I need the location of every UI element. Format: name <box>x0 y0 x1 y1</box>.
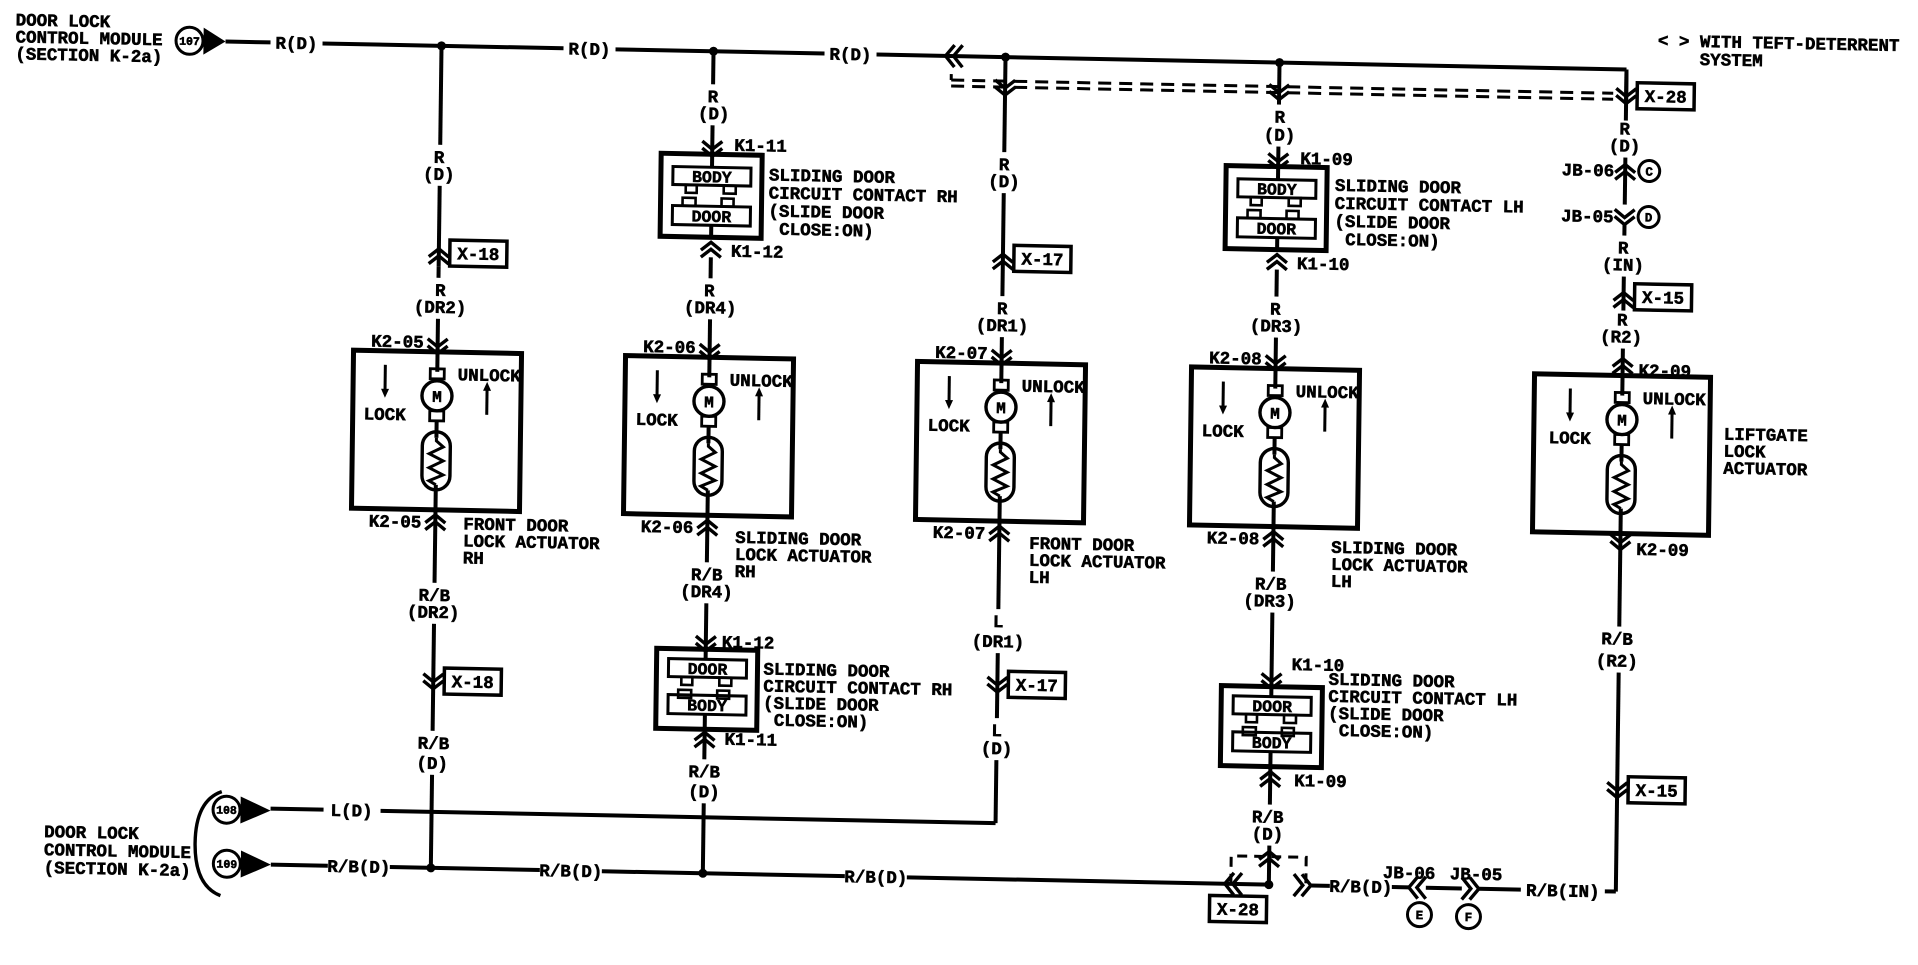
wire R/B(IN) corner to vertical 5 <box>1605 889 1616 893</box>
junction node at vertical 4 <box>1275 58 1284 67</box>
svg-text:(DR4): (DR4) <box>684 299 737 320</box>
svg-text:R/B: R/B <box>688 763 720 784</box>
svg-text:K2-05: K2-05 <box>369 513 422 534</box>
connector chevron into X-28 junction <box>1259 851 1279 866</box>
svg-text:108: 108 <box>216 805 237 818</box>
wire vertical 2 to lower contact RH <box>704 603 709 649</box>
wire L(D) run to vertical 3 <box>381 811 996 823</box>
connector chevron JB-06 bottom <box>1409 876 1426 898</box>
wire below actuator 2 <box>705 515 710 562</box>
svg-text:CLOSE:ON): CLOSE:ON) <box>774 712 869 734</box>
wire R(D) drop 4 <box>1277 63 1282 105</box>
svg-text:(IN): (IN) <box>1602 256 1644 277</box>
svg-text:JB-05: JB-05 <box>1561 207 1614 228</box>
connector X-15 upper label box <box>1634 284 1691 311</box>
wire between JB-06 and JB-05 <box>1426 886 1462 891</box>
wire vertical 5 into liftgate actuator <box>1621 349 1625 375</box>
connector X-17 lower chevron <box>987 677 1007 692</box>
svg-text:R(D): R(D) <box>275 35 317 56</box>
wire R(D) drop 2 <box>711 51 715 84</box>
wire R/B(D) segment 4 into X-28 <box>907 877 1269 884</box>
wire R(D) bus from terminal 107 <box>226 40 271 45</box>
sliding door lock actuator LH box K2-08 <box>1189 367 1359 528</box>
wire vertical 2 to contact RH <box>710 125 714 154</box>
connector X-28 dashed outline <box>1231 856 1306 886</box>
svg-text:M: M <box>996 400 1006 418</box>
connector chevron K1-11 lower <box>694 732 714 747</box>
svg-text:LH: LH <box>1029 569 1050 589</box>
wire vertical 1 below X-18 lower <box>431 689 436 731</box>
wire vertical 5 to X-15 lower <box>1617 673 1619 798</box>
svg-text:(D): (D) <box>698 105 730 126</box>
connector X-15 upper chevron <box>1613 292 1633 307</box>
wire L(D) from terminal 108 <box>271 809 324 810</box>
svg-text:X-18: X-18 <box>452 673 494 694</box>
connector chevron X-28 left <box>1225 873 1242 895</box>
junction node at vertical 1 <box>437 41 446 50</box>
svg-text:(D): (D) <box>688 783 720 804</box>
wire vertical 4 into actuator 4 <box>1274 338 1278 369</box>
sliding door circuit contact RH upper box <box>660 153 762 238</box>
svg-text:X-15: X-15 <box>1642 289 1684 310</box>
connector X-18 upper label box <box>450 240 507 267</box>
svg-text:UNLOCK: UNLOCK <box>730 372 794 393</box>
svg-text:BODY: BODY <box>1252 734 1292 754</box>
svg-text:K1-10: K1-10 <box>1297 255 1350 276</box>
module bracket parenthesis <box>194 791 221 896</box>
wire R(D) drop 1 upper <box>440 46 441 145</box>
svg-text:K2-07: K2-07 <box>935 344 988 365</box>
svg-text:M: M <box>1617 412 1627 430</box>
wire R(D) drop 3 <box>1004 57 1005 152</box>
wire R/B(D) segment 3 <box>602 871 845 876</box>
svg-text:(DR2): (DR2) <box>414 298 467 319</box>
wire vertical 3 into actuator 3 <box>1000 337 1004 363</box>
svg-text:UNLOCK: UNLOCK <box>1643 390 1707 411</box>
svg-text:L: L <box>993 613 1004 633</box>
wire R/B(D) after X-28 <box>1311 883 1330 887</box>
svg-text:M: M <box>432 389 442 407</box>
wire R(D) bus segment 3 <box>616 49 825 53</box>
wire vertical 1 below X-18 <box>437 267 441 278</box>
svg-text:X-17: X-17 <box>1021 250 1063 271</box>
svg-text:K2-09: K2-09 <box>1636 541 1689 562</box>
svg-text:BODY: BODY <box>687 696 727 716</box>
wire vertical 2 below contact <box>709 257 713 278</box>
wire vertical 5 below JB-05 <box>1622 225 1626 236</box>
wire vertical 1 to R/B(D) bus crossing L(D) <box>431 775 432 868</box>
connector chevron K1-10 below contact <box>1267 254 1287 269</box>
svg-text:LOCK: LOCK <box>928 417 971 438</box>
wire below liftgate actuator <box>1619 534 1620 627</box>
connector X-28 label box top right <box>1637 83 1694 110</box>
svg-text:K2-06: K2-06 <box>641 518 694 539</box>
connector chevron X-28 right <box>1294 874 1311 896</box>
svg-text:UNLOCK: UNLOCK <box>458 366 522 387</box>
connector X-15 lower chevron <box>1607 782 1627 797</box>
svg-text:X-15: X-15 <box>1635 782 1677 803</box>
svg-text:CLOSE:ON): CLOSE:ON) <box>779 221 874 243</box>
connector chevron K1-09 <box>1268 153 1288 168</box>
connector X-17 lower label box <box>1008 671 1065 698</box>
connector chevron JB-06 upper <box>1615 164 1635 179</box>
svg-text:(D): (D) <box>1264 126 1296 147</box>
svg-text:K2-05: K2-05 <box>371 333 424 354</box>
wire vertical 4 into X-28 junction <box>1267 846 1272 885</box>
svg-text:(DR1): (DR1) <box>972 633 1025 654</box>
terminal 107 of door lock control module <box>176 27 203 55</box>
connector X-17 upper chevron <box>993 254 1013 269</box>
connector chevron JB-05 bottom <box>1462 877 1479 899</box>
svg-text:M: M <box>704 394 714 412</box>
connector X-18 upper chevron <box>429 249 449 264</box>
svg-text:(D): (D) <box>988 173 1020 194</box>
svg-text:E: E <box>1416 909 1424 923</box>
wire R(D) bus segment 2 <box>323 43 564 48</box>
svg-text:X-17: X-17 <box>1016 676 1058 697</box>
svg-text:LOCK: LOCK <box>1549 429 1592 450</box>
sliding door circuit contact LH upper box <box>1225 166 1327 251</box>
svg-text:ACTUATOR: ACTUATOR <box>1723 460 1808 482</box>
circled F junction block pin <box>1456 904 1480 928</box>
svg-text:L(D): L(D) <box>330 802 372 823</box>
svg-text:CLOSE:ON): CLOSE:ON) <box>1345 231 1440 253</box>
connector chevron at theft dashed line v4 <box>1269 84 1289 99</box>
svg-text:R/B(D): R/B(D) <box>539 862 602 883</box>
svg-text:M: M <box>1270 406 1280 424</box>
wire vertical 1 into actuator <box>436 319 440 352</box>
front door lock actuator RH box K2-05 <box>351 350 521 511</box>
connector X-18 lower label box <box>444 668 501 695</box>
junction node at vertical 2 <box>709 47 718 56</box>
wire below lower contact RH <box>702 729 706 759</box>
junction node R/B at X-28 <box>1264 880 1273 889</box>
wire vertical 4 to lower contact LH <box>1269 613 1274 687</box>
svg-text:K2-07: K2-07 <box>933 524 986 545</box>
wire vertical 5 to X-15 <box>1621 277 1625 311</box>
svg-text:107: 107 <box>179 36 200 49</box>
connector chevron JB-05 upper <box>1615 209 1635 224</box>
svg-text:LOCK: LOCK <box>636 411 679 432</box>
svg-text:R/B: R/B <box>418 735 450 756</box>
connector chevron K1-10 lower <box>1261 673 1281 688</box>
svg-text:D: D <box>1645 211 1653 225</box>
wire R/B(D) segment 2 <box>390 867 540 870</box>
svg-text:JB-06: JB-06 <box>1383 864 1436 885</box>
wire below actuator 4 <box>1271 527 1276 572</box>
svg-text:(DR4): (DR4) <box>680 583 733 604</box>
svg-text:(DR3): (DR3) <box>1250 317 1303 338</box>
svg-text:K2-06: K2-06 <box>643 338 696 359</box>
connector chevron at theft dashed line v3 <box>995 80 1015 95</box>
svg-text:LOCK: LOCK <box>1202 422 1245 443</box>
svg-text:F: F <box>1465 911 1473 925</box>
svg-text:(DR2): (DR2) <box>407 603 460 624</box>
svg-text:(D): (D) <box>416 755 448 776</box>
connector X-18 lower chevron <box>423 674 443 689</box>
circled C junction block pin <box>1639 160 1660 181</box>
wire R/B(D) from terminal 109 <box>271 865 328 866</box>
connector chevron K1-12 below contact <box>701 242 721 257</box>
svg-text:(D): (D) <box>423 166 455 187</box>
svg-text:K2-08: K2-08 <box>1207 529 1260 550</box>
circled E junction block pin <box>1407 902 1431 926</box>
wire vertical 1 to X-18 lower <box>431 624 436 689</box>
svg-text:UNLOCK: UNLOCK <box>1022 378 1086 399</box>
wire below actuator 1 <box>433 510 438 583</box>
svg-text:DOOR: DOOR <box>1256 220 1296 240</box>
svg-text:LH: LH <box>1331 573 1352 593</box>
svg-text:109: 109 <box>216 859 237 872</box>
svg-text:K2-09: K2-09 <box>1638 362 1691 383</box>
svg-text:(D): (D) <box>981 740 1013 761</box>
svg-text:K1-11: K1-11 <box>724 731 777 752</box>
svg-text:K2-08: K2-08 <box>1209 349 1262 370</box>
svg-text:LOCK: LOCK <box>364 405 407 426</box>
svg-text:R/B(IN): R/B(IN) <box>1526 882 1600 903</box>
svg-text:CLOSE:ON): CLOSE:ON) <box>1339 722 1434 744</box>
sliding door circuit contact RH lower box <box>656 648 758 730</box>
svg-text:SYSTEM: SYSTEM <box>1700 51 1763 72</box>
wire vertical 5 from bus corner to X-28 <box>1624 70 1629 121</box>
connector X-15 lower label box <box>1628 777 1685 804</box>
dashed theft-deterrent wire pair <box>950 74 953 80</box>
svg-text:C: C <box>1645 165 1653 179</box>
liftgate lock actuator box K2-09 <box>1532 374 1710 536</box>
svg-text:UNLOCK: UNLOCK <box>1296 383 1360 404</box>
wire vertical 3 to L(D) line <box>994 760 999 823</box>
svg-text:(D): (D) <box>1252 825 1284 846</box>
wire vertical 5 to R/B(IN) corner <box>1616 798 1617 892</box>
wire to JB-06 chevron <box>1392 885 1409 889</box>
connector chevron K1-09 lower <box>1260 771 1280 786</box>
svg-text:X-18: X-18 <box>457 245 499 266</box>
wire vertical 1 to X-18 <box>439 186 440 267</box>
sliding door circuit contact LH lower box <box>1220 686 1322 768</box>
svg-text:K1-09: K1-09 <box>1294 772 1347 793</box>
wire vertical 3 to X-17 lower <box>995 653 1000 692</box>
svg-text:(DR3): (DR3) <box>1243 592 1296 613</box>
svg-text:RH: RH <box>735 563 756 583</box>
wire R/B(IN) run <box>1479 887 1521 892</box>
svg-text:(R2): (R2) <box>1596 652 1638 673</box>
svg-text:(D): (D) <box>1609 137 1641 158</box>
circled D junction block pin <box>1638 206 1659 227</box>
svg-text:R/B: R/B <box>1601 630 1633 651</box>
junction node at vertical 3 <box>1001 53 1010 62</box>
wire below actuator 3 <box>998 521 999 609</box>
svg-text:R(D): R(D) <box>829 46 871 67</box>
svg-text:K1-12: K1-12 <box>731 243 784 264</box>
connector chevron K1-12 lower <box>696 636 716 651</box>
svg-text:X-28: X-28 <box>1645 88 1687 109</box>
wire vertical 4 below contact <box>1274 270 1278 297</box>
svg-text:X-28: X-28 <box>1217 901 1259 922</box>
svg-text:(R2): (R2) <box>1600 328 1642 349</box>
connector chevron on R(D) bus <box>945 45 962 67</box>
terminal 108 of door lock control module <box>213 796 240 824</box>
terminal 109 of door lock control module <box>213 850 240 878</box>
connector chevron K1-11 <box>702 141 722 156</box>
svg-text:R/B(D): R/B(D) <box>327 858 390 879</box>
svg-text:R/B(D): R/B(D) <box>844 868 907 889</box>
junction node R/B at vertical 1 <box>426 863 435 872</box>
svg-text:(SECTION K-2a): (SECTION K-2a) <box>15 45 162 68</box>
svg-text:DOOR: DOOR <box>691 207 731 227</box>
wire below lower contact LH <box>1268 767 1272 805</box>
wire R(D) bus segment 4 with corner down to X-28 <box>877 55 1627 70</box>
svg-text:(DR1): (DR1) <box>976 317 1029 338</box>
connector X-28 label box bottom <box>1209 895 1266 922</box>
wire vertical 5 to JB-06 <box>1623 158 1628 205</box>
wire vertical 2 into actuator 2 <box>708 319 712 357</box>
svg-text:RH: RH <box>463 549 484 569</box>
wire vertical 2 to R/B(D) bus <box>701 803 706 873</box>
wire below X-17 lower <box>995 692 999 718</box>
connector X-28 chevron top right <box>1616 88 1636 103</box>
wire vertical 3 to X-17 <box>1002 193 1003 296</box>
svg-text:R(D): R(D) <box>568 40 610 61</box>
connector X-17 upper label box <box>1014 245 1071 272</box>
front door lock actuator LH box K2-07 <box>915 361 1085 522</box>
svg-text:JB-05: JB-05 <box>1450 865 1503 886</box>
wire vertical 4 to contact LH <box>1276 147 1280 167</box>
svg-text:(SECTION K-2a): (SECTION K-2a) <box>44 859 191 882</box>
junction node R/B at vertical 2 <box>698 869 707 878</box>
sliding door lock actuator RH box K2-06 <box>623 356 793 517</box>
svg-text:JB-06: JB-06 <box>1562 161 1615 182</box>
